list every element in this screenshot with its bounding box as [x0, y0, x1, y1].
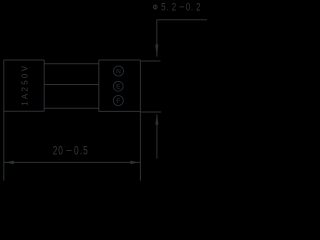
- svg-text:−: −: [66, 145, 72, 158]
- svg-text:5: 5: [83, 145, 88, 158]
- svg-text:F: F: [116, 98, 120, 105]
- svg-text:.: .: [167, 1, 169, 14]
- svg-text:1A250V: 1A250V: [21, 64, 30, 106]
- svg-text:2: 2: [196, 1, 200, 14]
- svg-text:.: .: [191, 1, 193, 14]
- svg-text:2: 2: [53, 145, 58, 158]
- svg-text:−: −: [179, 2, 185, 14]
- svg-text:N: N: [116, 68, 121, 75]
- svg-text:0: 0: [186, 1, 190, 14]
- svg-text:.: .: [80, 145, 82, 158]
- svg-text:0: 0: [58, 145, 63, 158]
- svg-text:2: 2: [172, 1, 176, 14]
- svg-text:5: 5: [161, 1, 165, 14]
- svg-text:E: E: [116, 84, 121, 91]
- svg-text:0: 0: [74, 145, 79, 158]
